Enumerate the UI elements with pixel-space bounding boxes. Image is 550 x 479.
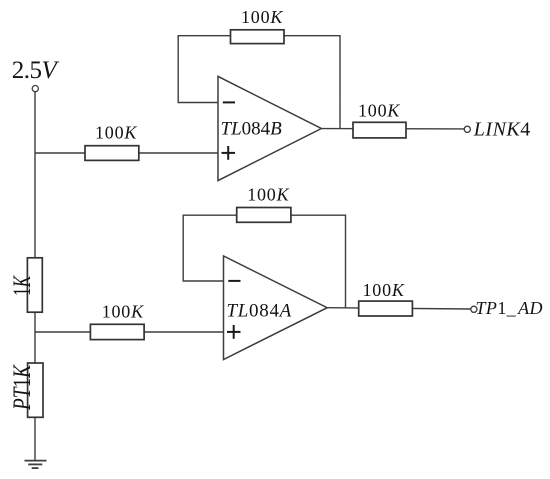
- svg-text:TL084A: TL084A: [227, 300, 292, 321]
- terminal TP1_AD: [471, 306, 477, 312]
- resistor 100K (bottom input): [90, 324, 144, 339]
- resistor 100K (bottom output): [359, 301, 413, 316]
- wire bottom plus-input branch: [35, 331, 224, 333]
- svg-text:2.5V: 2.5V: [12, 57, 60, 84]
- op-amp TL084B: [218, 76, 321, 180]
- svg-text:TL084B: TL084B: [221, 119, 283, 140]
- pin minus TL084B: [223, 101, 235, 103]
- svg-text:LINK4: LINK4: [473, 119, 531, 141]
- terminal LINK4: [464, 126, 470, 132]
- wire left rail: [34, 92, 36, 461]
- svg-text:100K: 100K: [247, 185, 289, 205]
- wire top feedback loop: [178, 36, 340, 129]
- resistor 1K (vertical): [27, 258, 42, 312]
- pin plus TL084B: [222, 152, 236, 154]
- ground: [25, 461, 47, 469]
- wire bottom output: [327, 308, 471, 309]
- resistor 100K (top output): [353, 122, 406, 138]
- resistor PT1K (vertical): [28, 363, 43, 417]
- pin minus TL084A: [228, 280, 240, 282]
- svg-text:100K: 100K: [363, 280, 405, 300]
- wire top plus-input branch: [35, 152, 218, 154]
- op-amp TL084A: [224, 256, 328, 360]
- svg-text:100K: 100K: [95, 123, 137, 143]
- svg-text:100K: 100K: [102, 302, 144, 322]
- svg-text:100K: 100K: [358, 101, 400, 121]
- wire bottom feedback loop: [183, 215, 345, 308]
- pin plus TL084A: [227, 331, 241, 333]
- resistor 100K (top input): [85, 146, 139, 161]
- terminal 2.5V: [32, 86, 38, 92]
- svg-text:PT1K: PT1K: [9, 364, 36, 411]
- resistor 100K (top feedback): [231, 30, 285, 44]
- wire top output: [321, 128, 464, 130]
- resistor 100K (bottom feedback): [237, 208, 291, 223]
- svg-text:1K: 1K: [9, 275, 36, 296]
- svg-text:100K: 100K: [241, 7, 283, 27]
- svg-text:TP1_AD: TP1_AD: [476, 298, 543, 318]
